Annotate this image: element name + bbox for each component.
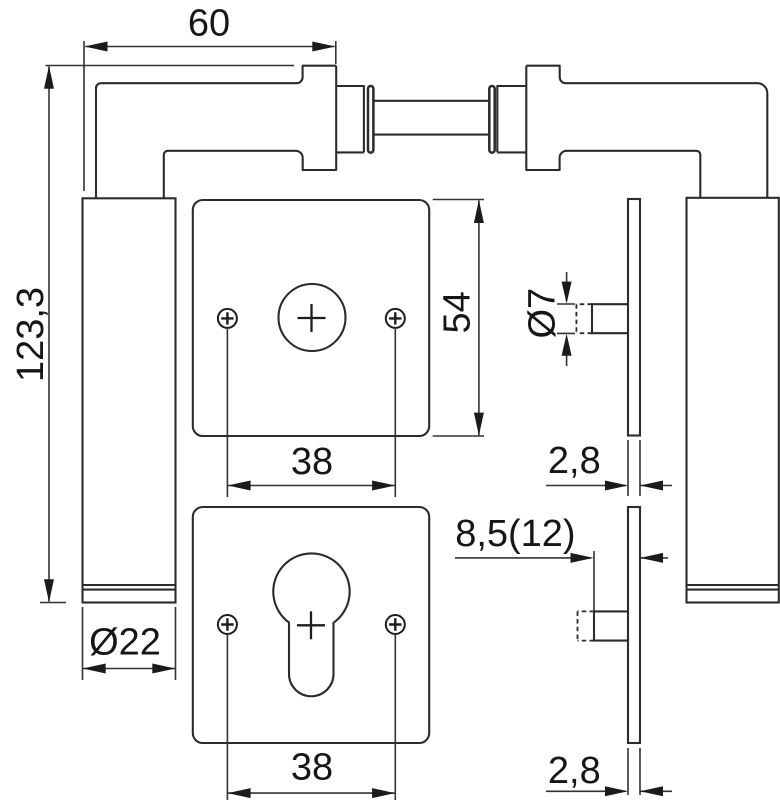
- svg-text:Ø22: Ø22: [89, 622, 161, 664]
- svg-text:2,8: 2,8: [548, 440, 601, 482]
- svg-text:54: 54: [437, 291, 479, 333]
- svg-text:Ø7: Ø7: [522, 288, 564, 339]
- svg-text:123,3: 123,3: [10, 287, 52, 382]
- svg-text:38: 38: [291, 441, 333, 483]
- svg-text:8,5(12): 8,5(12): [455, 513, 575, 555]
- svg-text:2,8: 2,8: [548, 750, 601, 792]
- svg-text:60: 60: [188, 3, 230, 45]
- svg-text:38: 38: [291, 747, 333, 789]
